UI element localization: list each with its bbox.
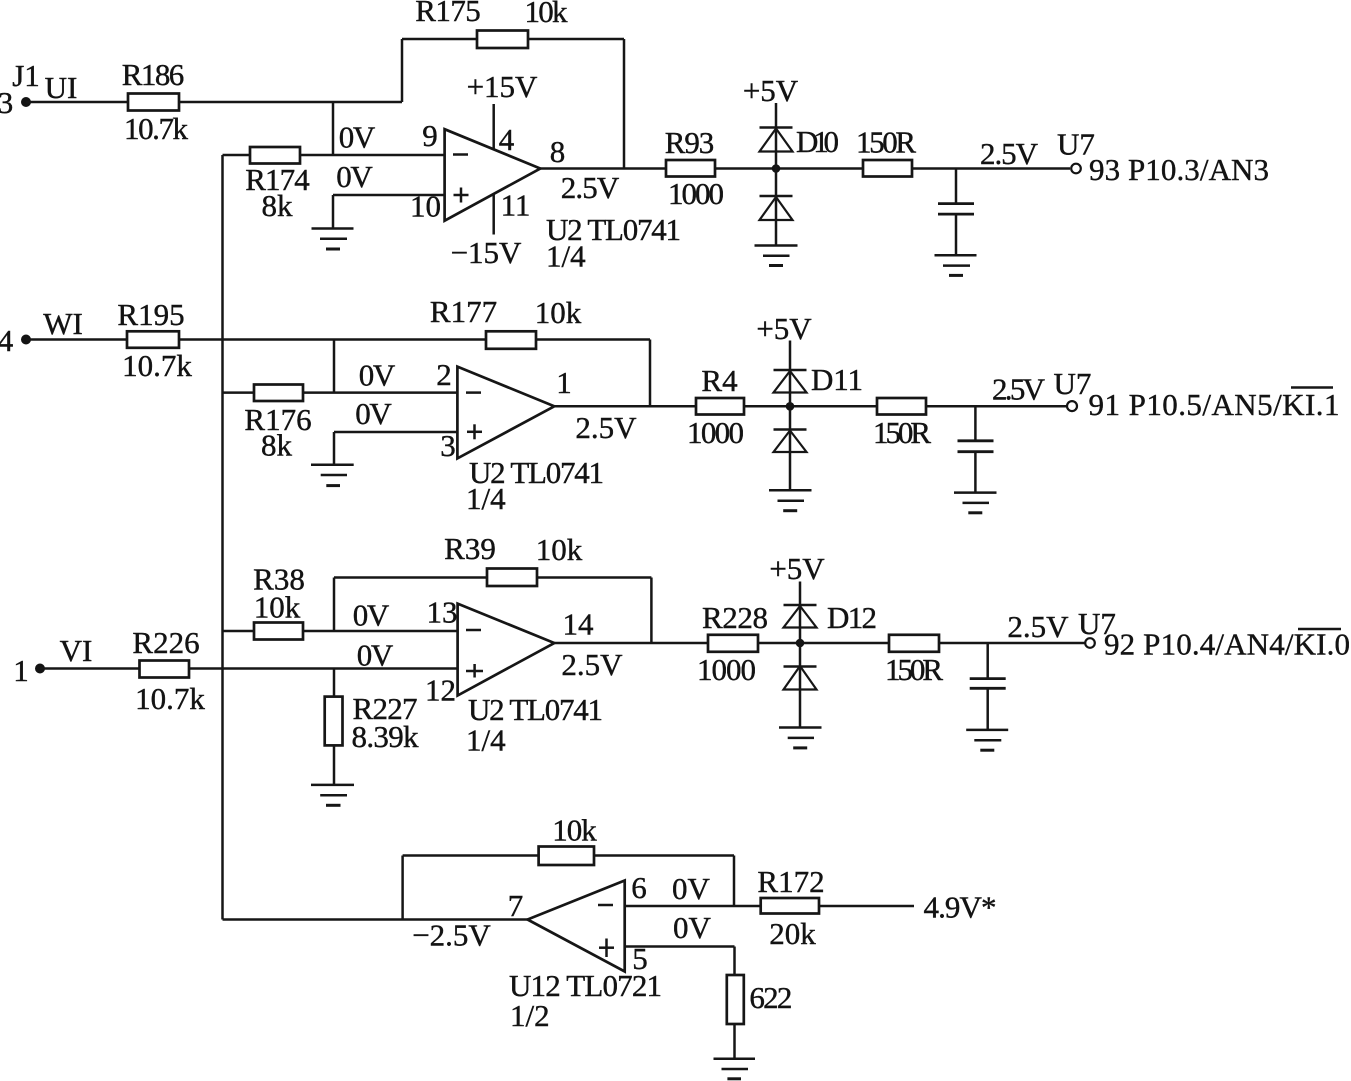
- resistor R226 10.7k: [132, 625, 205, 716]
- capacitor (stage 2 filter): [958, 406, 994, 492]
- svg-text:10k: 10k: [254, 590, 301, 625]
- capacitor (stage 3 filter): [970, 643, 1006, 730]
- svg-text:3: 3: [0, 85, 13, 120]
- resistor R186 10.7k: [122, 57, 189, 146]
- ground (D12 clamp): [779, 728, 822, 748]
- svg-text:1/4: 1/4: [546, 239, 586, 274]
- svg-text:8: 8: [550, 134, 566, 169]
- svg-text:10k: 10k: [552, 813, 597, 848]
- wire feedback right vertical to output: [623, 39, 626, 169]
- svg-text:8k: 8k: [262, 188, 294, 223]
- svg-text:0V: 0V: [357, 638, 394, 673]
- wire 150R to output terminal: [912, 167, 1070, 170]
- open terminal circle to U7 pin 91: [1067, 401, 1077, 411]
- junction dot at D10 clamp node: [772, 164, 781, 173]
- wire feedback right vertical to output pin 1: [649, 340, 652, 407]
- svg-text:R39: R39: [444, 531, 496, 566]
- svg-text:622: 622: [749, 980, 792, 1015]
- diode D12 upper (to +5V): [784, 600, 878, 635]
- resistor 622: [727, 975, 793, 1024]
- wire to 10k feedback resistor: [403, 854, 539, 857]
- node VI input terminal dot: [35, 664, 45, 674]
- ground (stage 1 non-inverting input): [312, 229, 354, 250]
- diode D11 lower (to ground): [774, 430, 807, 453]
- svg-text:10: 10: [410, 189, 441, 224]
- ground (stage 2 capacitor): [954, 493, 997, 513]
- wire junction down to inverting input: [332, 102, 335, 155]
- wire R4 to 150R: [744, 405, 877, 408]
- op-amp U12 TL0721 1/2 (left pointing): [509, 881, 662, 1034]
- svg-text:0V: 0V: [336, 159, 373, 194]
- svg-text:150R: 150R: [873, 415, 931, 450]
- wire junction up to feedback R39: [333, 578, 336, 632]
- wire R175 to right corner: [528, 38, 624, 41]
- node UI input terminal dot: [21, 97, 31, 107]
- wire +5V through diodes to ground: [799, 582, 802, 728]
- svg-text:0V: 0V: [673, 910, 712, 945]
- svg-text:2.5V: 2.5V: [561, 170, 620, 205]
- svg-text:2.5V: 2.5V: [561, 647, 623, 682]
- ground (622 resistor): [714, 1059, 756, 1079]
- wire non-inverting input pin 5: [625, 945, 735, 948]
- svg-text:10.7k: 10.7k: [124, 111, 189, 146]
- svg-text:WI: WI: [43, 306, 83, 341]
- svg-text:J1: J1: [12, 58, 40, 93]
- wire R38 to op-amp inverting input pin 13: [303, 630, 458, 633]
- wire rail to R38: [223, 630, 255, 633]
- svg-text:U7: U7: [1053, 366, 1091, 401]
- svg-text:93 P10.3/AN3: 93 P10.3/AN3: [1089, 152, 1269, 187]
- svg-text:1000: 1000: [668, 176, 724, 211]
- wire rail to R174: [223, 154, 251, 157]
- svg-text:+5V: +5V: [769, 551, 825, 586]
- svg-text:10k: 10k: [536, 532, 583, 567]
- svg-text:R175: R175: [415, 0, 481, 28]
- wire to R175: [402, 38, 477, 41]
- svg-text:4.9V*: 4.9V*: [924, 890, 997, 925]
- overline on KI.0: [1298, 628, 1341, 630]
- svg-text:12: 12: [425, 673, 456, 708]
- resistor R195 10.7k: [117, 297, 192, 383]
- ground (D11 clamp): [769, 490, 812, 510]
- svg-text:1: 1: [13, 653, 29, 688]
- svg-text:150R: 150R: [856, 125, 916, 160]
- svg-text:6: 6: [631, 870, 647, 905]
- ground (stage 3 capacitor): [966, 730, 1008, 750]
- wire rail to R176: [223, 391, 255, 394]
- svg-text:2.5V: 2.5V: [1007, 609, 1069, 644]
- wire feedback right vertical to output pin 14: [650, 578, 653, 644]
- svg-text:1: 1: [556, 365, 572, 400]
- svg-text:10k: 10k: [535, 295, 582, 330]
- resistor R176 8k: [244, 385, 311, 463]
- wire R172 to 4.9V* node: [819, 905, 914, 908]
- wire R186 to feedback corner: [179, 101, 402, 104]
- ground (R227): [311, 785, 354, 805]
- svg-text:R4: R4: [701, 363, 738, 398]
- svg-text:D11: D11: [811, 362, 863, 397]
- wire down to 622 resistor: [733, 947, 736, 976]
- svg-text:+5V: +5V: [743, 73, 799, 108]
- svg-text:R226: R226: [132, 625, 199, 660]
- node WI input terminal dot: [21, 335, 31, 345]
- svg-text:D12: D12: [827, 600, 877, 635]
- op-amp U2 TL0741 1/4 (third): [458, 604, 603, 758]
- wire to R39: [334, 576, 487, 579]
- svg-text:2.5V: 2.5V: [992, 372, 1046, 407]
- diode D11 upper (to +5V): [774, 362, 864, 397]
- wire +5V through diodes to ground: [789, 341, 792, 491]
- wire down to ground: [332, 195, 335, 229]
- svg-text:−15V: −15V: [451, 235, 522, 270]
- svg-text:1/4: 1/4: [466, 723, 506, 758]
- svg-text:9: 9: [422, 118, 438, 153]
- resistor R177 10k feedback: [430, 294, 582, 349]
- svg-text:2.5V: 2.5V: [575, 410, 637, 445]
- svg-text:1/4: 1/4: [466, 481, 506, 516]
- svg-text:1/2: 1/2: [510, 998, 550, 1033]
- resistor R172 20k: [757, 864, 824, 951]
- op-amp U2 TL0741 1/4 (first): [445, 129, 681, 273]
- svg-text:+5V: +5V: [756, 311, 812, 346]
- wire output pin 1 to R4: [554, 405, 696, 408]
- junction dot at D12 clamp node: [796, 639, 805, 648]
- svg-text:1000: 1000: [697, 652, 756, 687]
- wire rail corner to op-amp U12 output pin 7: [223, 918, 528, 921]
- svg-text:7: 7: [508, 888, 524, 923]
- open terminal circle to U7 pin 92: [1085, 638, 1095, 648]
- resistor R38 10k: [253, 562, 305, 640]
- supply +15V symbol: [467, 69, 538, 149]
- resistor R93 1000: [665, 125, 724, 211]
- svg-text:D10: D10: [796, 124, 839, 159]
- wire VI terminal to R226: [40, 667, 140, 670]
- wire output pin 14 to R228: [554, 642, 708, 645]
- ground (D10 clamp): [755, 246, 798, 266]
- svg-text:R93: R93: [665, 125, 715, 160]
- resistor R228 1000: [697, 600, 768, 687]
- svg-text:−2.5V: −2.5V: [412, 918, 491, 953]
- wire WI terminal to R195: [26, 338, 127, 341]
- wire R39 to right corner: [537, 576, 651, 579]
- resistor R227 8.39k: [325, 691, 419, 754]
- svg-text:0V: 0V: [672, 871, 711, 906]
- resistor R175 10k feedback: [415, 0, 568, 48]
- svg-text:8.39k: 8.39k: [352, 719, 420, 754]
- wire non-inverting input pin 10: [333, 194, 445, 197]
- svg-text:+15V: +15V: [467, 69, 538, 104]
- wire feedback left vertical: [401, 39, 404, 102]
- resistor 150R (stage 3): [885, 635, 943, 687]
- wire feedback left vertical: [401, 856, 404, 920]
- svg-text:3: 3: [440, 428, 456, 463]
- resistor R4 1000: [687, 363, 744, 450]
- svg-text:92 P10.4/AN4/KI.0: 92 P10.4/AN4/KI.0: [1104, 627, 1350, 662]
- wire 150R to output terminal: [926, 405, 1067, 408]
- diode D10 lower (to ground): [760, 196, 793, 220]
- wire R93 to 150R: [715, 167, 863, 170]
- wire junction down to inverting input pin 2: [333, 340, 336, 393]
- resistor 10k (U12 feedback): [539, 813, 598, 866]
- svg-text:R177: R177: [430, 294, 497, 329]
- wire 10k to right corner: [594, 854, 734, 857]
- wire 622 to ground: [733, 1024, 736, 1059]
- wire output pin 8 to R93: [540, 167, 666, 170]
- wire UI terminal to R186: [26, 101, 128, 104]
- op-amp U2 TL0741 1/4 (second): [457, 367, 604, 516]
- resistor 150R (stage 1): [856, 125, 916, 177]
- wire 150R to output terminal: [939, 642, 1085, 645]
- svg-text:1000: 1000: [687, 415, 744, 450]
- svg-text:10k: 10k: [525, 0, 569, 29]
- resistor R174 8k: [245, 147, 310, 223]
- svg-text:11: 11: [501, 188, 531, 223]
- svg-text:10.7k: 10.7k: [135, 681, 205, 716]
- resistor 150R (stage 2): [873, 398, 931, 450]
- wire R228 to 150R: [758, 642, 889, 645]
- wire down to ground: [333, 432, 336, 465]
- diode D12 lower (to ground): [784, 666, 817, 690]
- svg-text:R195: R195: [117, 297, 184, 332]
- svg-text:4: 4: [499, 122, 515, 157]
- svg-text:R186: R186: [122, 57, 185, 92]
- svg-text:2.5V: 2.5V: [980, 136, 1039, 171]
- wire +5V through diodes to ground: [775, 103, 778, 246]
- svg-text:0V: 0V: [339, 120, 376, 155]
- ground (stage 2 non-inverting input): [311, 465, 354, 486]
- supply -15V symbol: [451, 194, 522, 270]
- wire R227 to ground: [333, 745, 336, 785]
- svg-text:2: 2: [436, 357, 452, 392]
- svg-text:20k: 20k: [769, 916, 816, 951]
- svg-text:4: 4: [0, 323, 14, 358]
- wire junction down to R227: [333, 669, 336, 697]
- net -2.5V rail (vertical bus): [221, 155, 224, 920]
- wire R226 to op-amp non-inverting input pin 12: [189, 667, 458, 670]
- open terminal circle to U7 pin 93: [1071, 164, 1081, 174]
- svg-text:UI: UI: [45, 70, 78, 105]
- wire R177 to right corner: [536, 338, 650, 341]
- resistor R39 10k feedback: [444, 531, 583, 586]
- svg-text:10.7k: 10.7k: [122, 348, 192, 383]
- wire non-inverting input pin 3: [334, 431, 457, 434]
- svg-text:R228: R228: [702, 600, 768, 635]
- svg-text:14: 14: [563, 607, 595, 642]
- wire inverting input pin 6 to R172: [625, 905, 761, 908]
- overline on KI.1: [1291, 386, 1333, 388]
- svg-text:150R: 150R: [885, 652, 943, 687]
- svg-text:0V: 0V: [355, 396, 392, 431]
- svg-text:0V: 0V: [353, 598, 390, 633]
- junction dot at D11 clamp node: [786, 402, 795, 411]
- capacitor (stage 1 filter): [938, 169, 974, 256]
- wire R174 to op-amp inverting input pin 9: [300, 154, 445, 157]
- wire R176 to op-amp inverting input pin 2: [303, 391, 457, 394]
- svg-text:13: 13: [427, 595, 458, 630]
- svg-text:8k: 8k: [261, 428, 293, 463]
- wire feedback right vertical to inverting input pin 6: [733, 856, 736, 907]
- diode D10 upper (to +5V): [760, 124, 840, 159]
- wire R195 to R177: [179, 338, 486, 341]
- svg-text:R172: R172: [757, 864, 824, 899]
- svg-text:91 P10.5/AN5/KI.1: 91 P10.5/AN5/KI.1: [1089, 387, 1340, 422]
- ground (stage 1 capacitor): [935, 255, 977, 275]
- svg-text:0V: 0V: [359, 358, 396, 393]
- svg-text:VI: VI: [60, 633, 93, 668]
